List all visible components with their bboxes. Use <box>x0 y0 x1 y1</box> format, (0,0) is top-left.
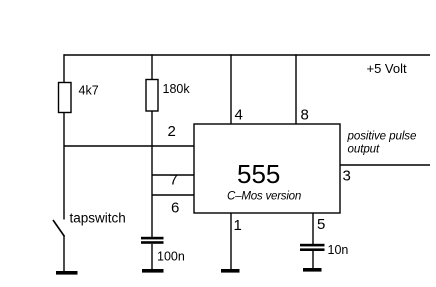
capacitor C2 10n plates <box>300 244 325 251</box>
pin number 7 <box>170 172 178 189</box>
wire pin 8 vertical <box>295 54 297 124</box>
svg-text:C–Mos version: C–Mos version <box>227 190 301 203</box>
wire 4k7 bottom lead down to tapswitch <box>63 113 65 220</box>
ground below tapswitch <box>56 271 78 275</box>
resistor R1 4k7 body <box>59 83 72 113</box>
svg-text:6: 6 <box>171 200 179 217</box>
net label +5 Volt <box>367 61 408 76</box>
pin number 5 <box>317 216 325 233</box>
wire 180k top lead <box>151 54 153 79</box>
wire pin 3 output horizontal <box>340 164 430 166</box>
svg-text:10n: 10n <box>328 243 349 257</box>
wire pin 7 horizontal <box>152 174 194 176</box>
wire 100n bottom lead <box>151 244 153 270</box>
wire pin 2 horizontal <box>64 145 194 147</box>
wire pin 5 vertical <box>312 213 314 244</box>
svg-text:5: 5 <box>317 216 325 233</box>
svg-text:positive pulse: positive pulse <box>347 130 417 143</box>
wire +5V top rail <box>64 54 431 56</box>
svg-text:555: 555 <box>237 159 280 189</box>
pin number 2 <box>168 123 176 140</box>
wire pin 1 vertical <box>230 213 232 270</box>
wire pin 4 vertical <box>230 54 232 124</box>
svg-text:tapswitch: tapswitch <box>70 211 126 226</box>
pin number 1 <box>234 217 242 234</box>
IC label C-Mos version <box>227 190 301 203</box>
pin number 3 <box>343 168 351 185</box>
wire tapswitch bottom lead <box>63 236 65 272</box>
svg-text:7: 7 <box>170 172 178 189</box>
wire pin 6 horizontal <box>152 194 194 196</box>
svg-text:4k7: 4k7 <box>79 84 99 98</box>
pin number 6 <box>171 200 179 217</box>
value label 100n <box>157 250 185 264</box>
svg-text:output: output <box>348 143 381 156</box>
resistor R2 180k body <box>146 80 158 112</box>
pin number 4 <box>235 107 243 124</box>
value label 180k <box>163 82 191 96</box>
svg-text:+5 Volt: +5 Volt <box>367 61 408 76</box>
svg-text:1: 1 <box>234 217 242 234</box>
svg-text:4: 4 <box>235 107 243 124</box>
value label 10n <box>328 243 349 257</box>
svg-text:180k: 180k <box>163 82 191 96</box>
IC label 555 <box>237 159 280 189</box>
svg-text:2: 2 <box>168 123 176 140</box>
wire 10n bottom lead <box>312 251 314 269</box>
svg-text:8: 8 <box>301 107 309 124</box>
ground below pin 1 <box>221 269 240 273</box>
wire 4k7 top lead <box>63 54 65 82</box>
svg-text:3: 3 <box>343 168 351 185</box>
label tapswitch <box>70 211 126 226</box>
capacitor C1 100n plates <box>141 237 164 244</box>
ground below 10n <box>303 268 322 272</box>
svg-text:100n: 100n <box>157 250 185 264</box>
value label 4k7 <box>79 84 99 98</box>
op-amp U1 555 IC body outline <box>194 124 340 213</box>
pin number 8 <box>301 107 309 124</box>
ground below 100n <box>142 269 164 273</box>
tapswitch S1 blade <box>53 220 65 237</box>
net label positive pulse output <box>347 130 417 156</box>
wire 180k bottom lead down to 100n capacitor <box>151 111 153 238</box>
